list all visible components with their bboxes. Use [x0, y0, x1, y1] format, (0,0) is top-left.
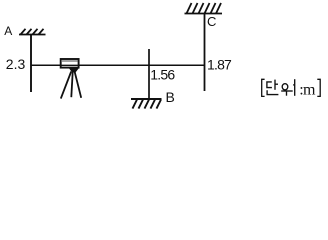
wall hatch support A	[19, 29, 46, 35]
ground hatch support B	[131, 99, 162, 109]
svg-text:2.3: 2.3	[6, 56, 26, 72]
svg-text:1.87: 1.87	[207, 57, 232, 73]
staff rod at B	[148, 49, 150, 99]
ceiling hatch support C	[185, 3, 223, 14]
unit label opening bracket [	[262, 79, 265, 96]
svg-text:m: m	[303, 82, 316, 99]
staff rod at A	[30, 35, 32, 93]
benchmark label B	[166, 89, 175, 105]
hangul syllable WI of unit label	[281, 79, 295, 96]
svg-text:A: A	[4, 24, 12, 38]
benchmark label A	[4, 24, 12, 38]
svg-text:B: B	[166, 89, 175, 105]
hangul syllable DAN of unit label	[267, 80, 279, 95]
svg-text:1.56: 1.56	[150, 66, 175, 82]
reading 1.56	[150, 66, 175, 82]
svg-text:C: C	[207, 14, 216, 29]
level instrument body	[61, 59, 79, 68]
unit label colon m closing bracket	[299, 79, 320, 98]
reading 1.87	[207, 57, 232, 73]
reading 2.3	[6, 56, 26, 72]
tripod	[61, 69, 81, 99]
staff rod at C	[204, 14, 206, 92]
benchmark label C	[207, 14, 216, 29]
sight line	[31, 64, 204, 66]
